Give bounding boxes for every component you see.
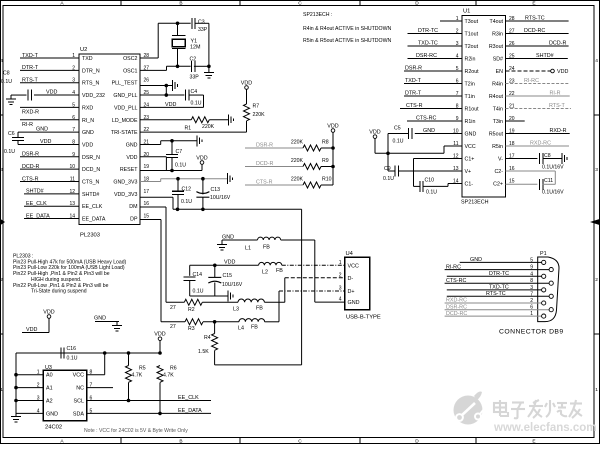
resistor R6 zigzag <box>157 366 163 383</box>
GND down to USB pin4 <box>314 240 316 302</box>
wire <box>543 183 556 185</box>
svg-text:B: B <box>179 1 182 7</box>
svg-text:E: E <box>532 439 535 444</box>
op-amp U1 SP213ECH chip body <box>462 16 506 198</box>
wire <box>22 332 49 334</box>
svg-text:27: 27 <box>170 305 176 311</box>
resistor R4 zigzag <box>212 334 218 351</box>
svg-text:TXD-T: TXD-T <box>405 78 422 84</box>
wire <box>445 302 542 304</box>
osc top rail <box>158 22 191 24</box>
svg-text:CTS-RC: CTS-RC <box>446 278 466 284</box>
wire <box>506 158 538 160</box>
svg-text:VCC: VCC <box>73 373 84 379</box>
svg-text:EN: EN <box>496 69 504 75</box>
svg-text:C: C <box>298 1 302 7</box>
resistor R7 zigzag <box>244 104 250 121</box>
wire <box>166 301 184 303</box>
svg-text:9: 9 <box>530 265 533 271</box>
svg-text:DCD_N: DCD_N <box>82 167 100 173</box>
VDD symbol <box>47 315 51 319</box>
svg-text:0.1U: 0.1U <box>193 289 204 295</box>
svg-text:RI_N: RI_N <box>82 118 94 124</box>
svg-text:TXD-TC: TXD-TC <box>418 41 438 47</box>
wire <box>203 95 205 107</box>
frame tick <box>594 114 600 116</box>
svg-text:RI-RC: RI-RC <box>524 78 539 84</box>
svg-text:GND_PLL: GND_PLL <box>113 93 137 99</box>
frame tick <box>475 1 477 6</box>
junction <box>14 386 18 390</box>
svg-text:U1: U1 <box>463 9 470 15</box>
junction <box>158 351 162 355</box>
wire <box>245 147 303 149</box>
svg-text:3: 3 <box>595 167 598 173</box>
wire <box>447 289 542 291</box>
connector P1 DB9 body <box>538 257 559 322</box>
wire <box>375 152 444 154</box>
svg-text:DP: DP <box>130 217 138 223</box>
wire <box>159 341 161 354</box>
wire to USB pin1 <box>282 264 345 266</box>
wire <box>140 181 161 183</box>
VDD_3V3 down <box>301 209 303 365</box>
svg-text:2: 2 <box>595 277 598 283</box>
wire <box>20 82 79 84</box>
wire <box>140 206 166 208</box>
resistor R9 zigzag <box>303 164 321 170</box>
watermark text 电子发烧友 <box>494 400 582 418</box>
Y1 top plate <box>172 35 186 37</box>
junction <box>213 264 217 268</box>
junction osc bottom <box>176 65 180 69</box>
svg-text:VDD: VDD <box>154 332 165 338</box>
svg-text:U2: U2 <box>80 47 87 53</box>
wire <box>321 184 333 186</box>
wire <box>388 170 395 172</box>
wire <box>445 315 542 317</box>
wire <box>140 219 161 221</box>
svg-text:VDD_3V3: VDD_3V3 <box>114 192 138 198</box>
svg-text:R1: R1 <box>185 126 192 132</box>
svg-text:GND: GND <box>36 127 48 133</box>
svg-text:FB: FB <box>263 245 270 251</box>
wire <box>16 412 43 414</box>
svg-text:VDD: VDD <box>557 69 568 75</box>
Y1 bottom stem <box>177 49 179 67</box>
VDD symbol <box>331 129 335 133</box>
wire <box>140 69 167 71</box>
capacitor C14 plates <box>184 277 196 280</box>
wire <box>407 120 462 122</box>
svg-text:R4in & R4out ACTIVE in SHUTDOW: R4in & R4out ACTIVE in SHUTDOWN <box>303 26 391 32</box>
R4 bottom stem <box>214 351 216 365</box>
wire <box>190 264 259 266</box>
wire <box>374 138 376 153</box>
svg-text:SD#: SD# <box>493 57 503 63</box>
svg-text:OSC1: OSC1 <box>123 68 137 74</box>
ground (USB) <box>217 245 227 251</box>
svg-text:R3in: R3in <box>492 32 503 38</box>
wire <box>172 197 174 209</box>
ground (U2 pin21) <box>197 135 202 146</box>
svg-text:R6: R6 <box>170 366 177 372</box>
wire <box>140 94 184 96</box>
wire <box>281 239 315 241</box>
wire <box>506 70 551 72</box>
wire <box>222 239 258 241</box>
wire <box>166 66 168 70</box>
C15 top stem <box>214 265 216 277</box>
wire <box>506 183 538 185</box>
wire <box>554 171 556 184</box>
capacitor C11 plates <box>540 179 543 190</box>
svg-text:10U/16V: 10U/16V <box>210 195 231 201</box>
svg-text:VDD: VDD <box>46 90 57 96</box>
wire <box>140 143 161 145</box>
svg-text:VDD: VDD <box>369 129 380 135</box>
wire <box>16 94 27 96</box>
wire <box>388 133 409 135</box>
svg-text:VDD: VDD <box>241 80 252 86</box>
wire pin26-pin25 <box>165 86 167 96</box>
wire <box>18 143 79 145</box>
capacitor C16 plates <box>61 348 64 359</box>
junction <box>14 373 18 377</box>
ground (LD_MODE) <box>229 114 234 125</box>
svg-text:TXD: TXD <box>82 56 93 62</box>
svg-text:R3: R3 <box>188 326 195 332</box>
wire down right side of osc <box>208 23 210 66</box>
junction <box>165 84 169 88</box>
wire <box>95 321 119 323</box>
osc bottom rail <box>167 65 191 67</box>
wire <box>404 83 462 85</box>
svg-text:VDD: VDD <box>126 155 137 161</box>
C15 bottom stem <box>214 283 216 297</box>
junction <box>201 177 205 181</box>
svg-text:220K: 220K <box>291 158 304 164</box>
wire <box>24 218 79 220</box>
svg-text:16: 16 <box>144 201 150 207</box>
resistor R2 zigzag <box>184 299 202 305</box>
svg-text:T1in: T1in <box>465 94 475 100</box>
svg-text:CONNECTOR DB9: CONNECTOR DB9 <box>499 329 564 336</box>
svg-text:T2in: T2in <box>465 82 475 88</box>
wire <box>414 185 420 187</box>
svg-text:2: 2 <box>339 272 342 278</box>
svg-text:24C02: 24C02 <box>45 425 62 431</box>
svg-text:R2out: R2out <box>465 69 480 75</box>
svg-text:C1-: C1- <box>465 182 474 188</box>
svg-text:CTS-RC: CTS-RC <box>416 116 436 122</box>
wire <box>445 269 549 271</box>
wire <box>87 412 211 414</box>
svg-text:D: D <box>415 439 419 444</box>
capacitor C4 plates <box>186 90 189 101</box>
svg-text:RI-R: RI-R <box>22 122 33 128</box>
capacitor C10 plates <box>420 181 423 192</box>
svg-text:C10: C10 <box>425 178 435 184</box>
capacitor C13 plates <box>196 192 209 198</box>
wire <box>279 290 345 292</box>
frame tick <box>594 333 600 335</box>
svg-text:SP213ECH :: SP213ECH : <box>303 12 332 18</box>
wire <box>415 133 462 135</box>
svg-text:RTS-TC: RTS-TC <box>486 291 506 297</box>
svg-text:C16: C16 <box>67 346 77 352</box>
svg-text:OSC2: OSC2 <box>123 56 137 62</box>
wire <box>16 374 43 376</box>
wire <box>506 145 570 147</box>
C12 bottom stem <box>177 194 179 209</box>
wire <box>87 374 105 376</box>
svg-text:GND: GND <box>94 316 106 322</box>
wire <box>285 277 345 279</box>
svg-text:R5in: R5in <box>492 144 503 150</box>
svg-text:VDD: VDD <box>26 327 37 333</box>
ground (oscillator) <box>204 73 214 79</box>
wire <box>506 33 569 35</box>
svg-text:SHTD#: SHTD# <box>536 53 554 59</box>
svg-text:C2+: C2+ <box>493 182 503 188</box>
svg-text:12M: 12M <box>190 45 201 51</box>
svg-text:TXD-TC: TXD-TC <box>489 285 509 291</box>
resistor R8 zigzag <box>303 145 321 151</box>
wire <box>18 131 79 133</box>
L4 up to D+ <box>278 291 280 322</box>
wire <box>165 157 167 171</box>
svg-text:220K: 220K <box>291 177 304 183</box>
svg-text:CTS-R: CTS-R <box>22 176 39 182</box>
svg-text:1.5K: 1.5K <box>198 349 209 355</box>
wire <box>245 184 303 186</box>
svg-text:RTS-T: RTS-T <box>549 103 565 109</box>
wire <box>404 70 462 72</box>
C12 top stem <box>177 179 179 192</box>
C14 top stem <box>189 265 191 276</box>
svg-text:220K: 220K <box>202 124 215 130</box>
junction <box>103 351 107 355</box>
svg-text:VCC: VCC <box>465 144 476 150</box>
wire U1 pin13 V+ <box>398 170 462 172</box>
wire <box>20 119 79 121</box>
svg-text:C3: C3 <box>198 20 205 26</box>
wire <box>128 353 130 366</box>
svg-text:DCD-R: DCD-R <box>22 164 39 170</box>
wire <box>447 295 549 297</box>
wire <box>20 106 79 108</box>
wire <box>24 193 79 195</box>
frame tick <box>359 1 361 6</box>
svg-text:LD_MODE: LD_MODE <box>112 118 138 124</box>
svg-text:T1out: T1out <box>465 32 479 38</box>
svg-text:C11: C11 <box>544 178 553 184</box>
ground (C14/C15) <box>228 291 233 302</box>
wire <box>20 57 79 59</box>
svg-text:RTS_N: RTS_N <box>82 81 99 87</box>
wire <box>404 95 462 97</box>
svg-text:4.7K: 4.7K <box>132 373 143 379</box>
svg-text:0.1U: 0.1U <box>393 139 404 145</box>
svg-text:U4: U4 <box>346 251 354 257</box>
svg-text:VDD_PLL: VDD_PLL <box>114 105 138 111</box>
wire <box>34 94 79 96</box>
wire <box>160 141 162 145</box>
svg-text:DTR-T: DTR-T <box>22 65 39 71</box>
svg-text:27: 27 <box>170 324 176 330</box>
svg-text:C5: C5 <box>394 126 401 132</box>
resistor R10 zigzag <box>303 182 321 188</box>
svg-text:RXD: RXD <box>82 105 93 111</box>
svg-text:R1out: R1out <box>465 107 480 113</box>
svg-text:0.1U: 0.1U <box>1 79 12 85</box>
svg-text:T4out: T4out <box>489 19 503 25</box>
junction <box>331 165 335 169</box>
wire <box>445 282 549 284</box>
wire <box>140 119 191 121</box>
junction <box>201 208 205 212</box>
svg-text:D-: D- <box>348 276 354 282</box>
frame tick <box>1 333 4 335</box>
wire <box>506 20 569 22</box>
wire <box>408 58 463 60</box>
svg-text:VDD: VDD <box>196 155 207 161</box>
chip U3 24C02 body <box>43 370 86 420</box>
wire <box>506 83 570 85</box>
svg-text:SDA: SDA <box>73 411 84 417</box>
capacitor C5 plates <box>409 128 412 139</box>
svg-text:2: 2 <box>530 298 533 304</box>
ground (V-) <box>562 153 567 164</box>
wire <box>87 387 113 389</box>
svg-text:FB: FB <box>256 306 263 312</box>
wire <box>265 321 279 323</box>
svg-text:T3in: T3in <box>493 119 503 125</box>
wire <box>165 207 167 302</box>
wire <box>140 156 166 158</box>
svg-text:8: 8 <box>530 278 533 284</box>
svg-text:DTR-T: DTR-T <box>405 91 422 97</box>
junction <box>176 177 180 181</box>
svg-text:R5: R5 <box>139 366 146 372</box>
wire <box>159 383 161 414</box>
wire <box>116 322 118 326</box>
svg-text:RTS-T: RTS-T <box>22 78 38 84</box>
VDD symbol <box>200 161 204 165</box>
svg-text:C8: C8 <box>544 153 551 159</box>
svg-text:3: 3 <box>339 286 342 292</box>
svg-text:EE_DATA: EE_DATA <box>178 408 202 414</box>
wire <box>24 205 79 207</box>
wire <box>160 220 162 322</box>
svg-text:EE_DATA: EE_DATA <box>82 217 106 223</box>
svg-text:A1: A1 <box>46 386 53 392</box>
svg-text:V+: V+ <box>465 169 472 175</box>
junction <box>127 351 131 355</box>
svg-text:CTS_N: CTS_N <box>82 180 100 186</box>
svg-text:R3out: R3out <box>489 44 504 50</box>
svg-text:DTR-TC: DTR-TC <box>489 271 509 277</box>
svg-text:V-: V- <box>498 157 503 163</box>
ground (PLL_TEST) <box>173 80 178 91</box>
svg-text:33P: 33P <box>190 75 200 81</box>
svg-text:C2-: C2- <box>494 169 503 175</box>
svg-text:C1+: C1+ <box>465 157 475 163</box>
wire <box>11 94 16 96</box>
svg-text:GND_3V3: GND_3V3 <box>113 180 137 186</box>
wire <box>332 132 334 185</box>
svg-text:VDD: VDD <box>165 102 176 108</box>
svg-text:C13: C13 <box>211 187 221 193</box>
svg-text:C7: C7 <box>176 149 183 155</box>
svg-text:DSR-R: DSR-R <box>405 66 422 72</box>
wire <box>140 170 202 172</box>
wire <box>201 164 203 170</box>
wire <box>20 181 79 183</box>
svg-text:1: 1 <box>530 311 533 317</box>
frame tick <box>120 438 122 444</box>
wire <box>423 185 448 187</box>
svg-text:FB: FB <box>276 268 283 274</box>
wire <box>160 179 162 182</box>
svg-text:0.1U: 0.1U <box>181 199 192 205</box>
svg-text:C8: C8 <box>3 71 10 77</box>
svg-text:R4in: R4in <box>492 82 503 88</box>
junction <box>176 208 180 212</box>
L3 bumps <box>238 299 264 302</box>
wire U1 pin11 VCC <box>444 145 462 147</box>
svg-text:EE_DATA: EE_DATA <box>26 213 50 219</box>
DB9 pin circles <box>542 260 546 264</box>
svg-text:4: 4 <box>0 58 3 64</box>
capacitor C8 plates <box>28 90 31 101</box>
capacitor C7 plates <box>166 154 178 157</box>
svg-text:R2: R2 <box>188 307 195 313</box>
wire <box>140 106 204 108</box>
svg-text:www.elecfans.com: www.elecfans.com <box>493 422 596 434</box>
wire <box>16 400 43 402</box>
VDD symbol <box>245 86 249 90</box>
svg-text:17: 17 <box>144 189 150 195</box>
svg-text:C2: C2 <box>190 57 197 63</box>
svg-text:CTS-R: CTS-R <box>256 180 273 186</box>
decoupling gnd rail <box>190 295 228 297</box>
frame marker left <box>1 219 6 225</box>
svg-text:1: 1 <box>339 260 342 266</box>
wire <box>209 119 228 121</box>
wire <box>447 275 542 277</box>
svg-text:DTR_N: DTR_N <box>82 68 100 74</box>
svg-text:GND: GND <box>348 300 360 306</box>
svg-text:T4in: T4in <box>493 107 503 113</box>
wire <box>140 57 158 59</box>
svg-text:DSR-R: DSR-R <box>22 152 39 158</box>
svg-text:R4: R4 <box>204 335 211 341</box>
wire <box>321 166 333 168</box>
frame tick <box>120 1 122 6</box>
svg-text:RXD-RC: RXD-RC <box>530 141 551 147</box>
wire <box>20 69 79 71</box>
svg-text:P1: P1 <box>540 251 547 257</box>
wire <box>445 309 549 311</box>
svg-text:T2out: T2out <box>465 44 479 50</box>
wire <box>246 121 248 132</box>
svg-text:5: 5 <box>530 257 533 263</box>
junction <box>165 93 169 97</box>
svg-text:PL2303: PL2303 <box>80 233 100 239</box>
svg-text:RI-RC: RI-RC <box>446 264 461 270</box>
